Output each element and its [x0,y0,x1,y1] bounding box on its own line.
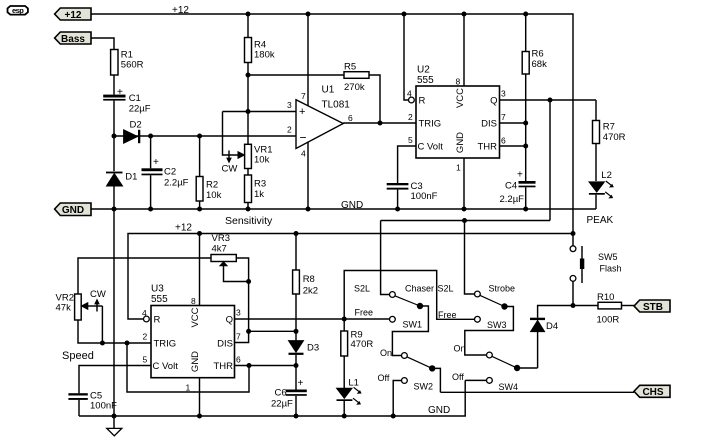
wire C1 to envelope node [113,101,115,136]
svg-text:7: 7 [236,332,241,342]
svg-text:10k: 10k [254,154,270,165]
svg-text:1: 1 [456,163,461,173]
svg-text:PEAK: PEAK [587,215,614,226]
switch SW4 [452,344,520,393]
junction bottom rail SW2 Off [391,414,396,419]
svg-text:C2: C2 [164,167,176,178]
IC U2 555 [416,65,500,159]
svg-text:R8: R8 [303,274,315,285]
svg-text:SW4: SW4 [499,382,519,392]
CW arrow VR2 [90,289,106,312]
svg-text:270k: 270k [344,82,365,93]
svg-text:C Volt: C Volt [418,142,444,153]
svg-text:R2: R2 [206,180,218,191]
svg-text:Bass: Bass [61,34,85,45]
wire GND rail [91,208,596,210]
resistor R8 [293,234,318,332]
LED L2 [589,170,614,209]
wire S2L signal drop from Q line [549,100,551,221]
svg-text:VCC: VCC [455,88,466,108]
svg-text:GND: GND [428,405,450,416]
capacitor C2 [142,136,189,209]
U3 R pin 4 circle [142,308,149,322]
resistor R4 [245,14,275,75]
svg-text:U3: U3 [151,284,164,295]
svg-text:THR: THR [477,142,497,153]
junction R4 / R5 feed node [246,73,251,78]
svg-text:+: + [153,157,159,168]
svg-text:SW2: SW2 [414,382,434,392]
switch SW3 [438,284,516,331]
junction GND-C2 [148,207,153,212]
connector Bass [55,32,91,45]
svg-text:VCC: VCC [190,307,201,327]
wire envelope line to op-amp inverting input [114,135,296,137]
resistor R10 [573,292,634,326]
svg-text:2.2µF: 2.2µF [500,194,525,205]
svg-text:GND: GND [190,351,201,372]
junction +input / VR1 top [246,109,251,114]
diode D4 [530,318,558,368]
wire DIS node to R8/D3 [249,330,296,332]
wire U2 VCC pin 8 [456,14,465,87]
wire U3 DIS pin 7 [235,331,249,342]
svg-text:C6: C6 [275,388,287,399]
capacitor C5 [68,391,117,417]
svg-text:3: 3 [501,89,506,99]
junction GND-U2 pin1 [462,207,467,212]
svg-text:180k: 180k [254,50,275,61]
ground symbol [107,416,122,436]
wire +12 lower rail [128,234,573,320]
svg-text:+: + [117,87,123,98]
junction +12 branch to SW5 [571,231,576,236]
wire SW4 Off stub [465,379,487,381]
switch SW2 [378,348,436,392]
svg-text:3: 3 [287,100,292,110]
wire U2 DIS pin 7 [500,112,526,123]
wire envelope to D1 [113,136,115,171]
wire bottom ground rail [79,380,465,416]
svg-text:Flash: Flash [600,264,622,274]
svg-text:3: 3 [236,308,241,318]
junction +12 rail / U2 reset [402,12,407,17]
svg-text:On: On [454,344,466,354]
switch SW1 [354,284,434,330]
junction bottom rail x114 [112,414,117,419]
svg-text:4k7: 4k7 [212,244,227,255]
connector STB [634,300,670,313]
svg-text:U1: U1 [322,85,335,96]
svg-text:D3: D3 [307,343,319,354]
svg-text:5: 5 [408,135,413,145]
svg-text:8: 8 [191,296,196,306]
svg-text:CW: CW [222,164,238,175]
wire op-amp + input line [223,111,297,113]
svg-text:22µF: 22µF [271,399,293,410]
svg-text:2k2: 2k2 [303,286,318,297]
capacitor C4 [500,170,536,210]
svg-text:Speed: Speed [62,350,94,362]
svg-text:2: 2 [408,112,413,122]
LED L1 [337,377,362,416]
junction THR-link [247,363,252,368]
wire Bass to R1 [91,38,114,50]
wire SW4 pole to D4 anode [517,367,538,369]
svg-text:Strobe: Strobe [489,284,516,294]
wire U2 Q pin 3 output line [500,89,597,101]
wire node to R5 [248,74,344,76]
svg-text:470R: 470R [351,339,374,350]
svg-text:R5: R5 [344,62,356,73]
junction TRIG-THR link [125,341,130,346]
svg-text:4: 4 [142,308,147,318]
wire U3 Q pin 3 Free line [235,308,390,320]
pin 4 U1 [301,142,308,210]
junction Q line to S2L drop [548,98,553,103]
junction envelope-R2 [197,134,202,139]
wire op-amp output to U2 TRIG [343,122,416,124]
resistor R2 [196,136,221,209]
wire SW2 Off to ground rail [393,381,402,417]
junction +12 rail / pin7 [306,12,311,17]
svg-text:TRIG: TRIG [419,119,442,130]
svg-text:2: 2 [287,125,292,135]
wire U3 VCC pin 8 [191,234,200,307]
svg-text:7: 7 [501,112,506,122]
junction bottom rail U3 GND [197,414,202,419]
svg-text:1k: 1k [254,189,264,200]
wire +12 to U2 R pin 4 [404,14,414,103]
svg-text:Off: Off [452,372,464,382]
svg-text:6: 6 [501,136,506,146]
svg-text:R: R [419,96,426,107]
svg-text:THR: THR [213,361,233,372]
resistor R3 [245,169,267,210]
junction VR3 wiper-right terminal [246,279,251,284]
potentiometer VR3 [211,233,249,331]
svg-text:R10: R10 [597,292,614,303]
junction S2L to SW3 branch [462,218,467,223]
svg-text:L2: L2 [601,170,612,181]
svg-text:100nF: 100nF [90,401,117,412]
wire x114 GND drop [113,209,115,416]
svg-text:S2L: S2L [438,284,454,294]
junction +12 lower / U3 VCC [197,231,202,236]
junction GND-D1 [112,207,117,212]
svg-text:Off: Off [378,373,390,383]
diode D3 [289,331,320,365]
junction THR-R6 [523,144,528,149]
svg-text:+: + [298,378,304,389]
resistor R6 [522,14,547,181]
svg-text:C1: C1 [129,93,141,104]
svg-text:TRIG: TRIG [154,339,177,350]
wire R5 to output node [369,75,380,123]
svg-text:7: 7 [301,91,306,101]
junction bottom rail L1 [342,414,347,419]
svg-text:R6: R6 [532,49,544,60]
svg-text:100nF: 100nF [411,191,438,202]
junction +12 lower / R8 [294,231,299,236]
junction TRIG-wiper [100,341,105,346]
wire VR2 bottom to TRIG line [78,320,151,343]
svg-text:CHS: CHS [642,387,663,398]
svg-text:D2: D2 [130,120,142,131]
svg-text:4: 4 [407,89,412,99]
junction GND-U1pin4 [306,207,311,212]
junction envelope-D2 anode [112,134,117,139]
wire node to D4 cathode [538,306,573,318]
diode D1 [106,172,137,210]
connector +12 [55,8,91,21]
junction DIS-R6 [523,121,528,126]
svg-text:10k: 10k [206,190,222,201]
svg-text:VR3: VR3 [212,233,230,244]
svg-text:SW3: SW3 [487,320,507,330]
svg-text:TL081: TL081 [322,100,351,111]
svg-text:L1: L1 [348,377,359,388]
svg-text:68k: 68k [532,59,548,70]
junction GND-C3 [395,207,400,212]
switch SW5 Flash [570,235,621,306]
junction +12 rail / R4 [246,12,251,17]
svg-text:+: + [299,106,305,118]
svg-text:Sensitivity: Sensitivity [225,215,273,227]
svg-text:−: − [300,131,307,145]
svg-text:C Volt: C Volt [153,361,179,372]
svg-text:2.2µF: 2.2µF [164,178,189,189]
wire +12 top rail [91,14,573,234]
svg-text:D1: D1 [125,172,137,183]
CW arrow VR1 [222,151,238,175]
svg-text:+12: +12 [65,10,82,21]
svg-text:2: 2 [143,332,148,342]
junction output node [378,121,383,126]
wire VR2 top feed [78,258,211,294]
wire R1 to C1 [113,75,115,95]
pin 7 U1 [301,14,308,106]
wire node down to +input [247,75,249,112]
junction SW5 / D4 / R10 node [571,303,576,308]
wire TRIG-THR link [127,343,249,392]
svg-text:5: 5 [143,355,148,365]
svg-text:Q: Q [490,96,497,107]
svg-text:560R: 560R [121,59,144,70]
svg-text:GND: GND [62,205,84,216]
svg-text:22µF: 22µF [129,104,151,115]
svg-text:R3: R3 [254,179,266,190]
svg-text:6: 6 [348,113,353,123]
junction DIS node left [246,329,251,334]
wire U3 GND pin 1 [186,378,200,416]
wire S2L horizontal run [381,220,550,222]
wire SW3 pole to SW4 On [465,307,514,356]
potentiometer VR2 [56,293,103,344]
svg-text:470R: 470R [603,132,626,143]
resistor R7 [593,100,626,181]
connector CHS [634,385,670,398]
resistor R9 [341,319,374,388]
wire Free node up and over to SW3 Free [344,271,475,320]
svg-text:S2L: S2L [354,284,370,294]
junction GND-R2 [197,207,202,212]
svg-text:C4: C4 [505,181,517,192]
svg-text:Chaser: Chaser [405,284,434,294]
svg-text:8: 8 [456,77,461,87]
IC U3 555 [151,284,235,378]
ESP logo [8,6,28,15]
svg-text:555: 555 [417,75,434,86]
svg-text:esp: esp [12,6,24,15]
wire U2 THR pin 6 [500,136,526,147]
junction THR-D3-C6 [294,363,299,368]
diode D2 [124,120,142,144]
svg-text:4: 4 [301,149,306,159]
junction Free line / R9 / loop [342,317,347,322]
wire SW1 pole to SW2 On [392,306,428,356]
svg-text:R: R [154,315,161,326]
svg-text:CW: CW [90,289,106,300]
capacitor C3 [387,181,438,209]
junction +12 rail / U2 VCC [462,12,467,17]
wire U2 CVolt pin 5 to C3 [398,146,416,183]
capacitor C1 [103,87,151,115]
resistor R5 [344,62,369,94]
svg-text:100R: 100R [597,315,620,326]
potentiometer VR1 [238,144,272,168]
svg-text:555: 555 [151,294,168,305]
svg-text:R7: R7 [603,122,615,133]
svg-text:SW5: SW5 [598,252,618,262]
svg-text:1: 1 [186,383,191,393]
wire S2L branch down to SW1 [381,221,390,295]
junction GND-C4 [523,207,528,212]
junction GND-R3 [246,207,251,212]
svg-text:D4: D4 [546,321,558,332]
wire U2 GND pin 1 [456,158,464,209]
svg-text:47k: 47k [56,303,72,314]
svg-text:Q: Q [226,315,233,326]
svg-text:STB: STB [643,302,663,313]
svg-text:DIS: DIS [217,339,233,350]
svg-text:U2: U2 [417,65,430,76]
svg-text:+: + [517,170,523,181]
wire U3 THR pin 6 [235,355,297,366]
capacitor C6 [271,366,307,417]
svg-text:SW1: SW1 [403,320,423,330]
wire CHS line [440,391,634,393]
svg-text:Free: Free [355,308,374,318]
op-amp U1 [296,85,350,149]
junction envelope-C2 [148,134,153,139]
wire SW2 pole to CHS line [432,368,440,392]
svg-text:6: 6 [236,355,241,365]
wire +input bypass down to VR1 wiper [223,112,239,156]
wire U3 CVolt pin 5 to C5 [79,366,151,394]
wire S2L branch down to SW3 [465,221,475,295]
wire +input node down to VR1 [247,112,249,145]
connector GND [55,203,91,216]
svg-text:Free: Free [438,310,457,320]
junction DIS node right R8-D3 [294,329,299,334]
junction bottom rail C6 [294,414,299,419]
svg-text:+12: +12 [172,5,189,16]
svg-text:On: On [380,348,392,358]
svg-text:GND: GND [341,200,363,211]
svg-text:GND: GND [455,132,466,153]
svg-text:+12: +12 [175,223,192,234]
svg-text:DIS: DIS [481,119,497,130]
resistor R1 [111,50,144,76]
junction +12 rail / R6 [523,12,528,17]
